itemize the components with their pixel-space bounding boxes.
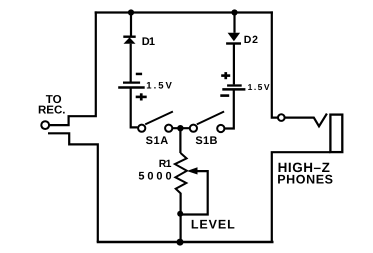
wire left upper rail to TO REC terminal	[50, 11, 96, 125]
wire switch common link S1A-S1B	[172, 127, 189, 129]
svg-text:S1B: S1B	[195, 135, 217, 147]
wire battery B2 down to switch S1B corner	[225, 89, 234, 128]
battery B2 plus sign	[221, 72, 230, 79]
svg-text:S1A: S1A	[146, 135, 169, 147]
svg-text:1.5V: 1.5V	[248, 82, 272, 92]
switch S1B right contact	[217, 125, 224, 132]
svg-text:R1: R1	[159, 158, 172, 170]
wire R1 bottom to bottom rail	[180, 193, 182, 242]
phone plug body	[330, 115, 342, 153]
wire battery B1 to switch S1A corner	[131, 89, 138, 128]
wire D2 to battery B2	[233, 44, 235, 85]
diode D2 cathode bar	[226, 42, 241, 44]
wire phone tip lead with spring contact	[285, 114, 327, 127]
wire top rail	[95, 11, 273, 13]
diode D1 triangle	[124, 37, 136, 43]
battery B2 minus sign	[220, 94, 229, 97]
terminal phone jack tip	[278, 114, 285, 121]
battery B2 long plate	[222, 88, 245, 91]
wire switch junction down to R1	[179, 128, 181, 153]
wire lower TO REC lead to bottom-left rail	[48, 133, 98, 242]
diode D1 cathode bar	[123, 36, 135, 38]
terminal TO REC	[41, 121, 49, 129]
battery B1 plus sign	[136, 93, 147, 100]
svg-text:D2: D2	[244, 34, 259, 46]
battery B1 minus sign	[136, 73, 142, 76]
svg-text:REC.: REC.	[38, 105, 65, 117]
node junction top rail D1	[128, 9, 134, 15]
node junction switch common	[177, 125, 183, 131]
wire bottom rail	[97, 241, 274, 243]
wire R1 wiper return loop	[182, 171, 208, 214]
switch S1A blade	[145, 112, 173, 125]
switch S1B blade	[197, 112, 224, 125]
node junction wiper return	[177, 211, 183, 217]
svg-text:LEVEL: LEVEL	[191, 218, 236, 232]
wire D1 branch from top rail	[130, 11, 132, 35]
svg-text:PHONES: PHONES	[277, 172, 333, 186]
wire D2 branch from top rail	[233, 11, 235, 32]
switch S1A left contact	[138, 125, 145, 132]
wire D1 to battery B1	[130, 44, 132, 82]
battery B2 short plate	[227, 84, 242, 86]
wire phone sleeve lead to bottom rail	[272, 152, 331, 241]
svg-text:5000: 5000	[138, 171, 174, 183]
diode D2 triangle	[228, 33, 241, 42]
switch S1B left contact	[190, 125, 197, 132]
switch S1A right contact	[165, 125, 172, 132]
battery B1 positive long plate	[118, 86, 145, 89]
resistor R1 zigzag	[175, 153, 187, 194]
potentiometer wiper arrowhead	[187, 167, 198, 174]
svg-text:1.5V: 1.5V	[146, 81, 174, 92]
node junction bottom rail	[177, 239, 184, 246]
battery B1 negative short plate	[123, 81, 140, 83]
wire right upper rail	[272, 11, 278, 117]
svg-text:D1: D1	[142, 36, 155, 48]
node junction top rail D2	[231, 9, 237, 15]
